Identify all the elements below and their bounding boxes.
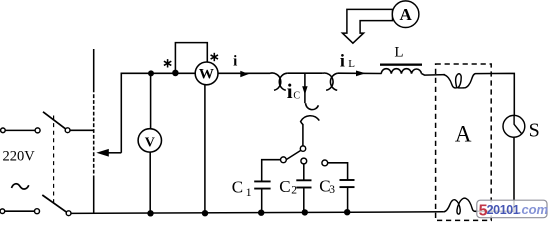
node voltmeter tap [148,70,154,76]
asterisk right [211,53,218,61]
watermark box [477,200,549,219]
wire connector to inductor [338,72,382,74]
wire contact to C1 [262,160,281,181]
wire between connectors [287,72,322,74]
autotransformer winding middle [93,89,95,177]
autotransformer wiper arm [108,152,122,154]
wire inductor to lamp [422,74,446,76]
arrowhead iC [302,86,307,95]
switch S2 contact a [35,209,40,214]
wattmeter voltage coil loop [175,43,207,73]
svg-text:S: S [529,119,540,141]
arrowhead iL [356,71,366,77]
iC branch wire [304,73,306,103]
wire lamp to starter corner [491,73,514,115]
contact C1 [281,157,287,163]
svg-text:W: W [199,66,214,82]
lamp bottom filament [443,198,476,214]
svg-text:i: i [233,53,237,69]
bottom rail [71,212,444,214]
switch S1 blade [43,112,66,129]
svg-text:220V: 220V [3,149,36,165]
svg-text:i: i [287,79,293,103]
wiper riser wire [120,73,122,153]
starter lower wire [513,137,515,211]
capacitor C2 [296,179,311,181]
switch S1 contact b [65,128,70,133]
main top wire [121,72,271,74]
svg-text:L: L [348,58,355,70]
starter S inner contact [514,116,521,134]
wattmeter W [195,62,218,85]
selector blade [286,150,301,160]
connector J3 hook lower [301,116,320,125]
autotransformer winding lower [93,176,95,213]
connector J3 hook upper [306,103,319,109]
voltmeter V [138,129,161,152]
svg-text:20101: 20101 [487,203,520,217]
terminal upper-left [1,128,6,133]
wire to selector pole [302,124,304,146]
svg-text:C: C [232,178,243,197]
svg-text:A: A [399,5,412,24]
node C1 rail [258,210,264,216]
lamp tube dashed box [436,64,492,220]
contact C3 [322,160,328,166]
connector J2 hook right [330,73,337,90]
terminal lower-left [0,209,5,214]
node wattmeter rail [202,210,208,216]
switch S1 contact a [35,128,40,133]
inductor L winding [381,69,421,74]
svg-text:2: 2 [291,185,297,197]
starter S circle [503,115,525,137]
connector J2 hook left [323,73,333,90]
svg-text:A: A [455,121,472,146]
lamp top filament [443,74,491,88]
connector J1 hook right [279,73,287,90]
svg-text:3: 3 [329,184,335,196]
contact C2 [301,158,307,164]
wire top-left [5,129,35,131]
node C2 rail [302,209,308,215]
ammeter probe hollow arrow [342,9,392,43]
svg-text:i: i [340,50,345,70]
svg-text:.com: .com [518,202,548,217]
voltmeter branch upper wire [150,73,152,129]
ammeter A [392,1,419,28]
node C3 rail [344,209,350,215]
switch S2 contact b [66,211,71,216]
node voltmeter rail [147,210,153,216]
autotransformer winding upper [93,49,95,89]
AC tilde symbol [12,184,29,189]
asterisk left [164,59,171,67]
svg-text:L: L [394,44,403,60]
node wattmeter voltage tap [172,70,179,77]
wire contact to C3 [328,163,348,180]
selector pole contact [300,146,305,151]
capacitor C1 [254,180,270,182]
capacitor C3 [340,179,355,181]
switch S2 blade [42,195,66,212]
wire switch to variac top tap [70,129,94,131]
arrowhead i [240,71,249,78]
switch gang dashed linkage [53,116,55,204]
svg-text:V: V [145,135,155,150]
autotransformer wiper arrowhead [96,149,109,157]
svg-text:C: C [293,90,300,101]
svg-text:1: 1 [246,185,252,199]
wire contact to C2 [303,164,305,180]
connector J1 hook left [270,73,281,90]
voltmeter branch lower wire [149,152,151,214]
wattmeter bottom stub to rail [204,84,206,213]
bottom rail right section [474,210,515,212]
svg-text:C: C [279,177,290,196]
wire bottom-left [5,210,35,212]
inductor L core bar [380,64,422,66]
